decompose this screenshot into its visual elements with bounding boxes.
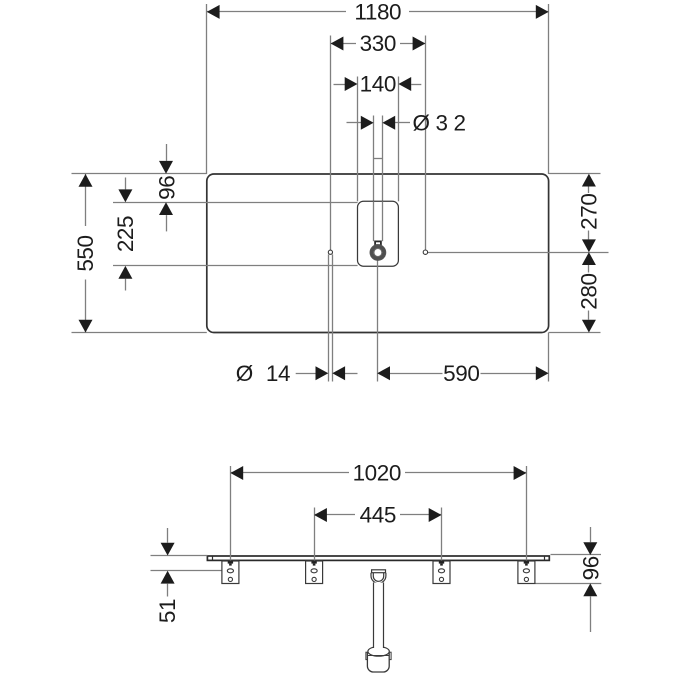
dim 330 <box>331 43 356 45</box>
dim 96 top-view (outside arrows) <box>166 144 168 161</box>
svg-text:445: 445 <box>360 503 396 528</box>
svg-text:590: 590 <box>443 361 479 386</box>
dim 590 <box>390 373 443 375</box>
dim 270 <box>588 187 590 194</box>
Ø32 lines into slot <box>373 201 375 241</box>
svg-text:1180: 1180 <box>354 0 401 25</box>
left extension lines bottom view <box>151 555 208 557</box>
dim 1020 extension lines <box>230 466 232 562</box>
console slab side view <box>207 556 549 560</box>
dim 1180 extension lines <box>206 4 208 174</box>
svg-text:330: 330 <box>360 31 396 56</box>
dim 1020 <box>230 472 349 474</box>
console top-view outline <box>207 174 549 333</box>
svg-text:Ø: Ø <box>236 361 253 386</box>
dim 280 <box>588 265 590 273</box>
svg-text:96: 96 <box>578 556 603 580</box>
dim 225 (outside arrows) <box>125 178 127 190</box>
svg-text:Ø32: Ø32 <box>413 111 472 136</box>
mounting hole right <box>423 250 427 254</box>
dim 445 extension lines <box>314 508 316 563</box>
dim 445 <box>314 514 355 516</box>
svg-text:225: 225 <box>113 216 138 252</box>
dim 96 bottom view (outside arrows) <box>590 527 592 542</box>
wall bracket 1 <box>222 561 239 584</box>
dim 140 (outside arrows) <box>334 84 346 86</box>
drain inlet inner U <box>373 573 383 582</box>
tap-hole slot <box>358 201 399 266</box>
trap collar <box>368 647 389 657</box>
mounting hole left (Ø14) <box>328 250 332 254</box>
svg-text:1020: 1020 <box>353 461 401 486</box>
wall bracket 4 <box>518 561 535 584</box>
drain inlet outer U <box>371 573 386 584</box>
faucet hole ring <box>370 245 386 261</box>
svg-text:550: 550 <box>73 235 98 271</box>
Ø14 extension lines <box>328 254 330 381</box>
dim Ø32 extension lines <box>373 116 375 242</box>
dim 550 <box>85 174 87 226</box>
wall bracket 2 <box>306 561 323 584</box>
svg-text:280: 280 <box>577 273 602 309</box>
wall bracket 3 <box>433 561 450 584</box>
dim 51 (outside arrows) <box>167 528 169 543</box>
right extension lines <box>549 173 601 175</box>
drain flange <box>372 570 386 573</box>
faucet centre line <box>377 260 379 382</box>
right extension lines bottom view <box>551 554 602 556</box>
faucet escutcheon square <box>375 241 381 245</box>
dim Ø14 (outside arrows) <box>296 373 316 375</box>
trap cup ears <box>366 652 368 659</box>
trap cup <box>367 653 389 672</box>
svg-text:14: 14 <box>266 361 290 386</box>
svg-text:96: 96 <box>155 176 180 200</box>
dim 1180 <box>207 11 346 13</box>
slab end seams <box>212 556 214 560</box>
faucet shaft connector <box>374 158 383 160</box>
drain pipe <box>374 583 384 649</box>
dim Ø32 (outside arrows) <box>347 122 362 124</box>
590 right extension <box>548 333 550 382</box>
svg-text:270: 270 <box>577 194 602 230</box>
left extension lines <box>72 173 207 175</box>
dim 330 extension lines <box>330 36 332 251</box>
svg-text:51: 51 <box>155 599 180 623</box>
svg-text:140: 140 <box>360 72 396 97</box>
dim 140 extension lines <box>357 77 359 202</box>
